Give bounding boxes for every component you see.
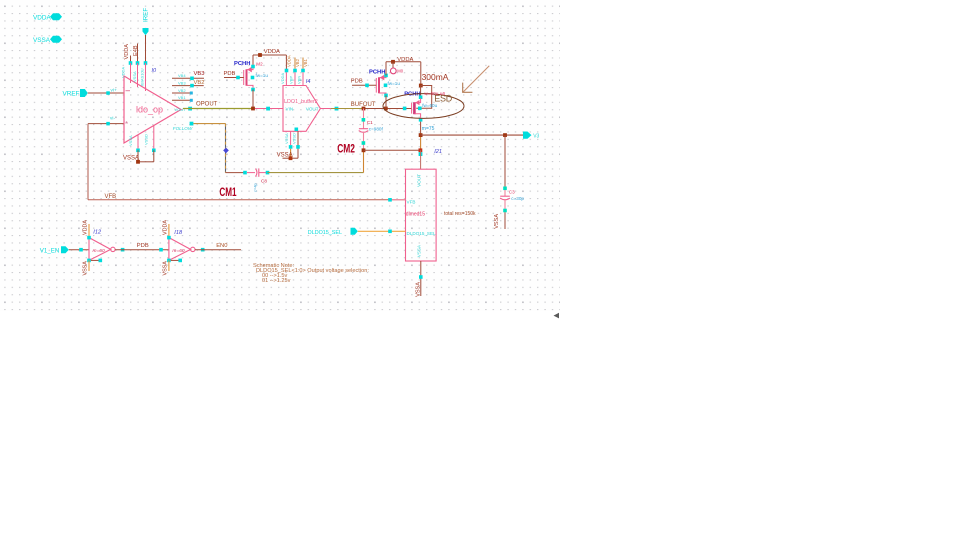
svg-text:VSSD: VSSD: [144, 134, 149, 145]
svg-text:M2: M2: [256, 62, 263, 67]
svg-text:VSSA: VSSA: [33, 37, 51, 44]
wire M1 drain to BUFOUT: [385, 95, 387, 108]
buffer top pin 2: [294, 58, 296, 69]
svg-text:DLDO15_SEL: DLDO15_SEL: [308, 230, 342, 236]
svg-text:VDDA: VDDA: [124, 44, 130, 60]
wire V1_EN to inverter I12: [69, 249, 89, 251]
capacitor C3: [500, 187, 524, 213]
wire M0 bulk loop: [416, 86, 432, 109]
svg-text:ESD: ESD: [434, 93, 453, 103]
wire IREF down to op-amp: [145, 35, 147, 63]
svg-text:FOLLOW: FOLLOW: [173, 126, 193, 131]
buffer top pin 3: [302, 58, 304, 69]
wire VSSA at op-amp bottom: [138, 161, 154, 163]
svg-text:VOUT: VOUT: [417, 174, 422, 187]
wire block VOUT pin: [420, 150, 422, 169]
junction VSSA buffer: [289, 156, 293, 160]
svg-text:VDDA: VDDA: [264, 49, 280, 55]
node block VOUT top: [419, 152, 423, 156]
buffer bottom pin 1: [290, 131, 292, 145]
wire M1 top to VDDA rail 2: [385, 62, 387, 76]
wire stub E4B at op-amp top: [137, 44, 139, 64]
svg-text:m=60: m=60: [172, 248, 184, 254]
wire C3 down: [504, 135, 506, 190]
svg-text:01 -->1.25v: 01 -->1.25v: [262, 278, 291, 284]
wire buffer VIN stub pink: [253, 108, 283, 110]
svg-text:VIN: VIN: [286, 106, 294, 111]
node M0 drain: [419, 118, 423, 122]
scrollbar arrow: [554, 313, 560, 319]
svg-text:VB1: VB1: [178, 95, 186, 100]
svg-text:total res=150k: total res=150k: [444, 211, 476, 217]
wire M0 drain down: [420, 122, 422, 133]
svg-text:C3: C3: [509, 189, 515, 194]
wire EN0 out: [201, 248, 205, 252]
transistor M1 PCHH (disable pmos): [369, 70, 400, 96]
svg-text:VSSA: VSSA: [417, 244, 422, 257]
wire PDB to M2 gate: [224, 77, 244, 79]
svg-text:VDDA: VDDA: [280, 73, 285, 84]
wire vertical to CM2 junction: [363, 150, 365, 172]
svg-text:CM1: CM1: [219, 187, 237, 199]
svg-text:VSSA: VSSA: [83, 261, 89, 276]
svg-text:PCHH: PCHH: [369, 70, 385, 76]
op-amp U I0 ldo_op: [124, 68, 181, 143]
svg-text:300mA: 300mA: [422, 73, 449, 82]
junction at C3 tap: [503, 133, 507, 137]
svg-text:IBIAS10U: IBIAS10U: [140, 68, 145, 86]
buffer top pin 1: [285, 69, 289, 73]
wire VFB horizontal: [88, 199, 406, 201]
svg-text:E4B: E4B: [133, 45, 139, 56]
node block VFB pin: [388, 198, 392, 202]
svg-text:VSSA: VSSA: [494, 214, 500, 229]
junction VDDA rail 1: [258, 53, 262, 57]
svg-text:fw=1u: fw=1u: [256, 73, 269, 78]
svg-text:M0: M0: [397, 68, 403, 73]
inverter I18: [163, 220, 196, 276]
wire stub VDDA at op-amp top: [130, 56, 132, 64]
capacitor C1: [359, 109, 384, 151]
op-amp top pin stubs inside symbol: [130, 63, 132, 83]
svg-text:VSSA: VSSA: [163, 261, 169, 276]
svg-text:DLDO15_SEL: DLDO15_SEL: [407, 231, 437, 236]
op-amp bias stub 4: [172, 99, 191, 101]
svg-text:OPOUT: OPOUT: [196, 102, 218, 108]
svg-text:C8: C8: [261, 178, 267, 183]
junction CM2 right end: [419, 148, 423, 152]
op-amp bottom pin stub 2: [153, 126, 155, 151]
wire CM2 horizontal: [364, 149, 421, 151]
svg-text:VDDA: VDDA: [397, 57, 413, 63]
junction VDDA rail 2: [391, 60, 395, 64]
wire DLDO15_SEL: [358, 230, 406, 232]
node M0 gate: [403, 107, 407, 111]
junction CM2 under C1: [362, 148, 366, 152]
op-amp bottom pin stub 1: [137, 135, 139, 151]
svg-text:*: *: [125, 120, 128, 129]
svg-text:VDDA: VDDA: [121, 67, 126, 78]
schematic note text: [253, 263, 369, 284]
via diamond on FOLLOW wire: [223, 148, 229, 154]
svg-text:c=980f: c=980f: [369, 126, 384, 131]
op-amp bias stub VB2: [172, 85, 204, 87]
svg-text:C1: C1: [367, 120, 373, 125]
schematic canvas dotted grid: [0, 0, 560, 311]
svg-text:VSSA: VSSA: [415, 282, 421, 297]
junction OPOUT at M2: [251, 107, 255, 111]
wire I12 out to I18 in (PDB): [121, 248, 125, 252]
op-amp FOLLOW pin: [190, 122, 194, 126]
svg-text:CM2: CM2: [337, 143, 355, 155]
svg-text:VB2: VB2: [295, 58, 300, 67]
node M1 bulk: [384, 84, 388, 88]
node M2 source bottom: [251, 88, 255, 92]
pin VDDA (top-left inout pin): [33, 13, 62, 21]
node squares op-amp top pins: [129, 61, 133, 65]
svg-text:PDB: PDB: [351, 79, 363, 85]
svg-text:I12: I12: [93, 229, 102, 235]
svg-text:VSSD: VSSD: [292, 133, 297, 144]
transistor M0 PCHH power pmos: [404, 91, 437, 118]
buffer I4 LDO1_buffer2: [283, 79, 320, 131]
wire CM1 horizontal right of C8: [268, 172, 364, 174]
svg-text:VB4: VB4: [178, 73, 186, 78]
svg-text:PDB: PDB: [224, 71, 236, 77]
svg-text:VOUT: VOUT: [306, 106, 319, 111]
pin V1_EN input: [40, 246, 69, 254]
svg-text:PDB: PDB: [137, 243, 149, 249]
svg-text:VB2: VB2: [178, 88, 186, 93]
wire M2 top to VDDA rail: [252, 55, 254, 65]
ESD ellipse: [383, 94, 464, 119]
wire VDDA rail 2: [386, 61, 421, 63]
svg-text:VB3: VB3: [178, 81, 186, 86]
svg-text:PCHH: PCHH: [234, 61, 250, 67]
svg-text:c=30p: c=30p: [511, 196, 524, 201]
svg-text:c=4p: c=4p: [253, 182, 258, 192]
wire PDB to M1 gate: [352, 84, 376, 86]
buffer VOUT stub: [320, 108, 331, 110]
svg-text:I4: I4: [306, 79, 311, 85]
svg-text:VOUT: VOUT: [175, 107, 187, 112]
node M2 drain top: [251, 65, 255, 69]
svg-text:fw=60u: fw=60u: [422, 103, 437, 108]
svg-text:VBN: VBN: [297, 76, 302, 84]
svg-text:VDDA: VDDA: [83, 220, 89, 235]
svg-text:vI+: vI+: [111, 87, 118, 92]
svg-text:VSSA: VSSA: [132, 71, 137, 82]
svg-text:V3: V3: [533, 134, 539, 140]
node on vI+ wire: [106, 91, 110, 95]
wire VSSA under buffer: [283, 157, 299, 159]
wire C3 to VSSA: [504, 212, 506, 229]
svg-text:V1_EN: V1_EN: [40, 248, 60, 255]
buffer bottom pin 2: [297, 131, 299, 158]
pin VSSA (top-left inout pin): [33, 36, 62, 44]
wire VDDA rail 1: [253, 54, 286, 56]
resistor block I21 dlmed15: [406, 149, 442, 261]
svg-text:VREF: VREF: [63, 91, 80, 98]
svg-text:VFB: VFB: [105, 194, 117, 200]
junction V3 tap: [419, 133, 423, 137]
svg-text:m=75: m=75: [422, 126, 435, 132]
svg-text:vI-: vI-: [110, 116, 116, 121]
svg-text:EN0: EN0: [216, 243, 227, 249]
junction at VSSA op-amp: [136, 160, 140, 164]
iprobe on VDDA rail 2: [392, 62, 394, 68]
svg-text:VDDA: VDDA: [163, 220, 169, 235]
wire block VSSA down: [420, 261, 422, 296]
junction M0 source top: [419, 84, 423, 88]
inverter I12: [83, 220, 116, 276]
wire M2 drain down to OPOUT: [252, 90, 254, 109]
op-amp bias stub VB3: [172, 77, 204, 79]
svg-text:I18: I18: [174, 230, 183, 236]
capacitor C8 (series): [243, 168, 269, 192]
svg-text:LDO1_buffer2: LDO1_buffer2: [284, 99, 318, 105]
svg-text:VDDA: VDDA: [287, 55, 292, 67]
svg-text:ldo_op: ldo_op: [136, 105, 163, 115]
transistor M2 PCHH (bias pmos): [234, 61, 268, 88]
svg-text:m=60: m=60: [93, 248, 105, 254]
node on vI- wire: [106, 122, 110, 126]
svg-text:I21: I21: [434, 149, 442, 155]
svg-text:VB2: VB2: [194, 80, 205, 86]
wire rail down into buffer pin1: [285, 55, 287, 71]
svg-text:fw=1u: fw=1u: [388, 81, 401, 86]
node M1 source top: [384, 74, 388, 78]
junction BUFOUT at M1 drain: [384, 107, 388, 111]
wire VDDA rail 2 down to M0: [420, 62, 422, 86]
wire vI- input: [88, 123, 124, 125]
wire CM1 horizontal left of C8: [226, 172, 246, 174]
svg-text:VDDA: VDDA: [33, 14, 51, 21]
pin V3 output: [523, 132, 540, 140]
svg-text:dlmed15: dlmed15: [406, 212, 425, 218]
svg-text:VSSA: VSSA: [128, 135, 133, 146]
wire BUFOUT: [331, 108, 364, 110]
svg-text:VBP: VBP: [289, 76, 294, 84]
pin IREF (top input pin): [143, 8, 150, 36]
node M2 bulk: [251, 76, 255, 80]
svg-text:VB1: VB1: [303, 58, 308, 67]
wire left feedback vertical: [87, 124, 89, 200]
junction BUFOUT at C1: [362, 107, 366, 111]
op-amp bias stub 3: [172, 92, 191, 94]
wire FOLLOW orange: [193, 123, 225, 125]
annotation arrow: [462, 66, 489, 93]
wire FOLLOW vertical dashed: [225, 124, 227, 173]
wire OPOUT olive: [183, 108, 253, 110]
pin VREF (input pin): [63, 89, 88, 98]
svg-text:VB3: VB3: [194, 71, 205, 77]
pin DLDO15_SEL input: [308, 228, 358, 236]
svg-text:VFB: VFB: [407, 199, 416, 204]
node M1 drain bottom: [384, 94, 388, 98]
wire VREF to op-amp vI+: [88, 92, 124, 94]
svg-text:IREF: IREF: [143, 8, 150, 22]
svg-text:VSSA: VSSA: [284, 133, 289, 144]
wire M0 source: [420, 86, 422, 99]
wire V3 output: [421, 134, 524, 136]
